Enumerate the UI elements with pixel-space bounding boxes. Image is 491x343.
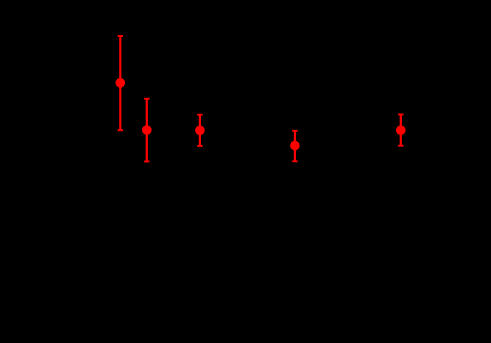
data point 1 error bar — [118, 36, 123, 130]
data point 4 error bar — [292, 131, 297, 162]
data point 5 error bar — [398, 115, 403, 146]
data point 3 marker — [195, 126, 205, 136]
data point 4 marker — [290, 141, 300, 151]
data point 2 error bar — [144, 99, 149, 162]
data point 3 error bar — [197, 115, 202, 146]
data point 5 marker — [396, 125, 406, 135]
data point 1 marker — [116, 78, 126, 88]
data point 2 marker — [142, 125, 152, 135]
